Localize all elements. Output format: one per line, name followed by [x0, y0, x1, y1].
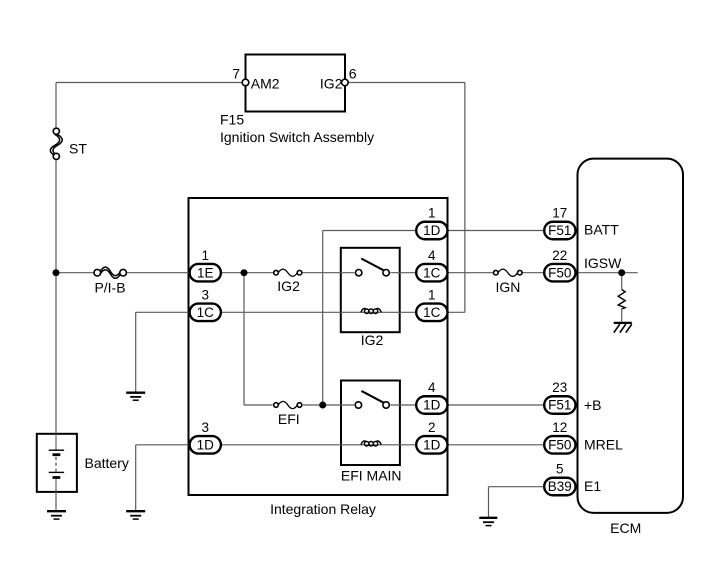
svg-text:1: 1 — [428, 288, 436, 303]
svg-text:IGN: IGN — [495, 279, 520, 295]
svg-text:2: 2 — [428, 420, 436, 435]
svg-text:1C: 1C — [423, 305, 441, 320]
svg-text:1: 1 — [201, 248, 209, 263]
svg-text:Battery: Battery — [85, 455, 129, 471]
svg-text:1D: 1D — [197, 437, 215, 452]
svg-text:6: 6 — [349, 66, 357, 82]
svg-text:4: 4 — [428, 248, 436, 263]
svg-text:1E: 1E — [197, 265, 214, 280]
svg-text:E1: E1 — [584, 478, 601, 494]
svg-text:1D: 1D — [423, 437, 441, 452]
svg-text:12: 12 — [552, 420, 567, 435]
svg-text:IGSW: IGSW — [584, 255, 622, 271]
svg-text:P/I-B: P/I-B — [94, 280, 125, 296]
svg-text:IG2: IG2 — [361, 332, 384, 348]
svg-text:IG2: IG2 — [320, 75, 343, 91]
svg-text:F15: F15 — [220, 112, 244, 128]
svg-text:23: 23 — [552, 380, 567, 395]
svg-text:B39: B39 — [548, 479, 572, 494]
svg-text:Ignition Switch Assembly: Ignition Switch Assembly — [220, 129, 374, 145]
svg-text:BATT: BATT — [584, 222, 619, 238]
svg-text:7: 7 — [232, 66, 240, 82]
svg-text:3: 3 — [201, 288, 209, 303]
svg-text:1C: 1C — [197, 305, 215, 320]
svg-text:EFI: EFI — [278, 411, 300, 427]
svg-text:ECM: ECM — [610, 520, 641, 536]
svg-text:ST: ST — [69, 141, 87, 157]
svg-text:MREL: MREL — [584, 437, 623, 453]
svg-text:22: 22 — [552, 248, 567, 263]
svg-text:F50: F50 — [548, 265, 571, 280]
svg-text:F50: F50 — [548, 437, 571, 452]
svg-text:1D: 1D — [423, 223, 441, 238]
svg-text:17: 17 — [552, 206, 567, 221]
svg-text:AM2: AM2 — [251, 75, 280, 91]
svg-text:F51: F51 — [548, 223, 571, 238]
svg-text:F51: F51 — [548, 398, 571, 413]
svg-text:1: 1 — [428, 206, 436, 221]
svg-text:IG2: IG2 — [277, 278, 300, 294]
svg-text:4: 4 — [428, 380, 436, 395]
svg-text:3: 3 — [201, 420, 209, 435]
svg-text:5: 5 — [556, 462, 564, 477]
svg-text:Integration Relay: Integration Relay — [270, 501, 376, 517]
svg-text:EFI MAIN: EFI MAIN — [341, 468, 402, 484]
svg-text:1D: 1D — [423, 398, 441, 413]
svg-text:+B: +B — [584, 397, 602, 413]
svg-text:1C: 1C — [423, 265, 441, 280]
